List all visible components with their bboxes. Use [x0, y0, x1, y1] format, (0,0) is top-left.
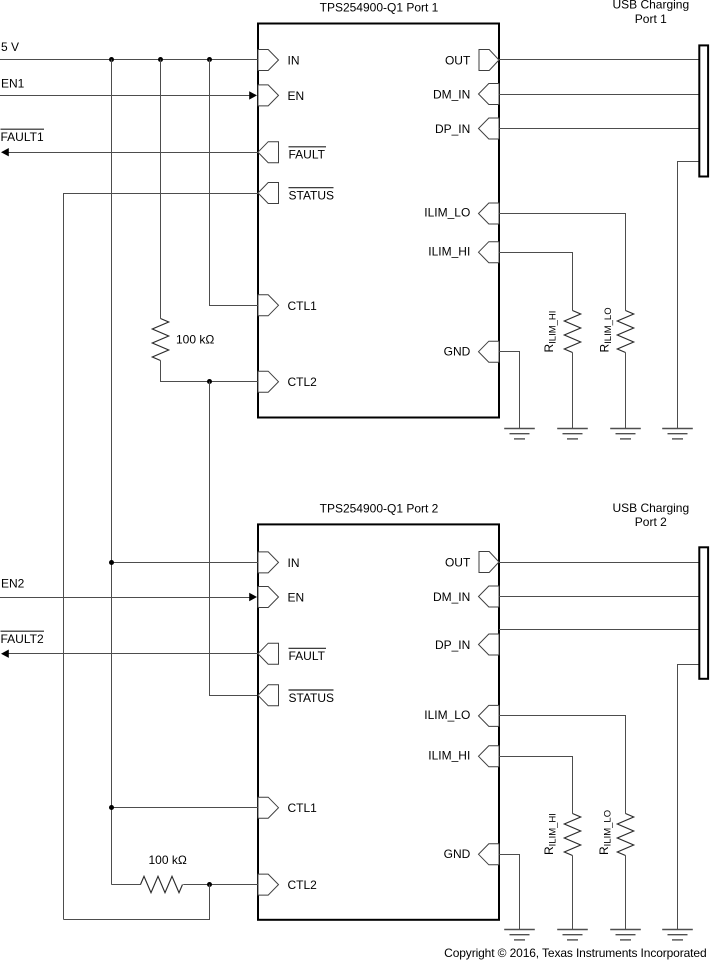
svg-text:IN: IN	[288, 556, 300, 570]
svg-text:OUT: OUT	[445, 54, 471, 68]
svg-text:ILIM_LO: ILIM_LO	[424, 206, 470, 220]
wire EN2 to EN (U2)	[0, 597, 250, 599]
label R_ILIM_HI (U2)	[542, 813, 559, 855]
pin CTL1 (U1)	[258, 295, 279, 316]
svg-text:CTL1: CTL1	[288, 299, 318, 313]
svg-text:GND: GND	[444, 345, 471, 359]
svg-text:USB Charging: USB Charging	[612, 501, 689, 515]
ground R_ILIM_HI (U2)	[557, 930, 588, 940]
wire DM_IN (U1) to USB1	[499, 94, 699, 96]
svg-text:FAULT1: FAULT1	[1, 130, 44, 144]
wire GND (U2) to ground	[500, 855, 520, 930]
wire EN1 to EN (U1)	[0, 95, 250, 97]
svg-text:DM_IN: DM_IN	[433, 590, 470, 604]
label R_ILIM_HI (U1)	[542, 311, 559, 353]
ground R_ILIM_LO (U2)	[610, 930, 641, 940]
svg-text:5 V: 5 V	[1, 40, 19, 54]
svg-text:DP_IN: DP_IN	[435, 638, 470, 652]
pin OUT (U1)	[479, 50, 499, 71]
wire CTL2-1 branch to STATUS (U2)	[210, 382, 259, 696]
arrowhead FAULT1	[1, 148, 9, 156]
svg-text:EN2: EN2	[1, 577, 25, 591]
pin FAULT (U1)	[258, 142, 279, 163]
wire R_ILIM_HI (U2) to ground	[572, 856, 574, 930]
wire R2 to CTL2 (U2)	[183, 884, 258, 886]
resistor R_ILIM_LO (U2)	[617, 814, 633, 856]
svg-text:EN1: EN1	[1, 76, 25, 90]
overline FAULT pin (U2)	[289, 647, 327, 649]
wire 5V branch C to CTL1 (U1)	[210, 60, 259, 306]
pin CTL2 (U2)	[258, 874, 279, 895]
ground R_ILIM_LO (U1)	[610, 429, 641, 439]
wire ILIM_LO (U2) to R_ILIM_LO	[500, 716, 626, 814]
pin DM_IN (U1)	[479, 84, 500, 105]
resistor R2 100 kOhm	[141, 876, 183, 892]
svg-text:IN: IN	[288, 54, 300, 68]
wire 5V branch B to R1 top	[160, 60, 162, 319]
resistor R_ILIM_HI (U2)	[564, 814, 580, 856]
pin GND (U1)	[479, 341, 500, 362]
pin FAULT (U2)	[258, 643, 279, 664]
label R_ILIM_LO (U1)	[598, 307, 615, 352]
pin EN (U1)	[258, 85, 279, 106]
pin GND (U2)	[479, 844, 500, 865]
resistor R_ILIM_LO (U1)	[617, 311, 633, 353]
wire DP_IN (U1) to USB1	[499, 128, 699, 130]
ground R_ILIM_HI (U1)	[557, 429, 588, 439]
svg-text:CTL1: CTL1	[288, 801, 318, 815]
wire branch A to R2	[111, 884, 140, 886]
wire 5V rail to IN (U1)	[0, 59, 258, 61]
USB connector J1	[699, 45, 708, 176]
wire FAULT (U1) to FAULT1	[8, 152, 258, 154]
svg-text:GND: GND	[444, 847, 471, 861]
wire USB2 shield to ground	[678, 665, 700, 930]
resistor R_ILIM_HI (U1)	[564, 311, 580, 353]
svg-text:TPS254900-Q1 Port 2: TPS254900-Q1 Port 2	[320, 501, 439, 515]
svg-text:OUT: OUT	[445, 556, 471, 570]
wire DM_IN (U2) to USB2	[499, 596, 699, 598]
svg-text:100 kΩ: 100 kΩ	[176, 333, 214, 347]
USB connector J2	[699, 547, 708, 679]
svg-text:Port 1: Port 1	[635, 12, 667, 26]
svg-text:STATUS: STATUS	[289, 189, 335, 203]
wire USB1 shield to ground	[678, 162, 700, 429]
wire STATUS (U1) down-link	[64, 194, 259, 920]
IC U2 block TPS254900-Q1 Port 2	[258, 524, 499, 919]
overline STATUS pin (U1)	[289, 187, 334, 189]
junction 5V/branch-A	[109, 57, 114, 62]
pin ILIM_LO (U1)	[479, 203, 500, 224]
junction CTL2-1/STATUS2 branch	[207, 379, 212, 384]
svg-text:STATUS: STATUS	[289, 691, 335, 705]
wire 5V branch A down-rail	[111, 60, 113, 885]
wire CTL2-2 loop to STATUS (U1) link	[64, 885, 210, 920]
junction CTL2-2/loop	[207, 882, 212, 887]
pin OUT (U2)	[479, 552, 499, 573]
ground USB2 shield	[662, 930, 693, 940]
svg-text:RILIM_LO: RILIM_LO	[598, 307, 615, 352]
pin CTL2 (U1)	[258, 371, 279, 392]
overline FAULT1	[1, 128, 45, 130]
svg-text:ILIM_HI: ILIM_HI	[428, 245, 470, 259]
pin ILIM_HI (U2)	[479, 746, 500, 767]
svg-text:EN: EN	[288, 591, 305, 605]
ground GND (U2)	[504, 930, 535, 940]
IC U1 block TPS254900-Q1 Port 1	[258, 24, 499, 418]
ground GND (U1)	[504, 429, 535, 439]
wire R1 bottom to CTL2 (U1)	[161, 361, 259, 382]
overline FAULT2	[1, 630, 45, 632]
pin DP_IN (U2)	[479, 634, 500, 655]
svg-text:EN: EN	[288, 89, 305, 103]
pin ILIM_HI (U1)	[479, 242, 500, 263]
svg-text:Port 2: Port 2	[635, 515, 667, 529]
pin EN (U2)	[258, 587, 279, 608]
svg-text:DM_IN: DM_IN	[433, 88, 470, 102]
arrowhead EN2	[249, 593, 257, 601]
svg-text:RILIM_HI: RILIM_HI	[542, 813, 559, 855]
pin IN (U2)	[258, 552, 279, 573]
wire OUT (U1) to USB1	[499, 59, 699, 61]
resistor R1 100 kOhm	[152, 319, 168, 361]
pin IN (U1)	[258, 50, 279, 71]
wire R_ILIM_LO (U2) to ground	[625, 856, 627, 930]
ground USB1 shield	[662, 429, 693, 439]
junction 5V-A/IN2	[109, 560, 114, 565]
junction 5V-A/CTL1-2	[109, 805, 114, 810]
svg-text:DP_IN: DP_IN	[435, 122, 470, 136]
svg-text:CTL2: CTL2	[288, 878, 318, 892]
arrowhead FAULT2	[1, 650, 9, 658]
wire GND (U1) to ground	[500, 352, 520, 429]
overline FAULT pin (U1)	[289, 146, 327, 148]
svg-text:TPS254900-Q1 Port 1: TPS254900-Q1 Port 1	[320, 1, 439, 15]
junction 5V/branch-C	[207, 57, 212, 62]
svg-text:RILIM_HI: RILIM_HI	[542, 311, 559, 353]
pin DM_IN (U2)	[479, 586, 500, 607]
arrowhead EN1	[249, 91, 257, 99]
svg-text:Copyright © 2016, Texas Instru: Copyright © 2016, Texas Instruments Inco…	[444, 946, 706, 960]
svg-text:ILIM_HI: ILIM_HI	[428, 749, 470, 763]
wire ILIM_HI (U2) to R_ILIM_HI	[500, 757, 573, 814]
svg-text:FAULT: FAULT	[289, 649, 326, 663]
wire R_ILIM_HI (U1) to ground	[572, 353, 574, 429]
pin ILIM_LO (U2)	[479, 705, 500, 726]
svg-text:USB Charging: USB Charging	[612, 0, 689, 11]
wire 5V branch A to CTL1 (U2)	[111, 807, 258, 809]
wire ILIM_HI (U1) to R_ILIM_HI	[500, 253, 573, 311]
pin STATUS (U1)	[258, 183, 279, 204]
label R_ILIM_LO (U2)	[597, 810, 614, 855]
svg-text:RILIM_LO: RILIM_LO	[597, 810, 614, 855]
svg-text:100 kΩ: 100 kΩ	[149, 853, 187, 867]
pin STATUS (U2)	[258, 685, 279, 706]
pin DP_IN (U1)	[479, 118, 500, 139]
junction 5V/branch-B	[158, 57, 163, 62]
wire DP_IN (U2) to USB2	[499, 629, 699, 631]
svg-text:ILIM_LO: ILIM_LO	[424, 708, 470, 722]
wire FAULT (U2) to FAULT2	[8, 653, 258, 655]
wire ILIM_LO (U1) to R_ILIM_LO	[500, 214, 626, 311]
wire OUT (U2) to USB2	[499, 562, 699, 564]
svg-text:FAULT: FAULT	[289, 148, 326, 162]
wire R_ILIM_LO (U1) to ground	[625, 353, 627, 429]
wire 5V branch A to IN (U2)	[111, 562, 258, 564]
svg-text:CTL2: CTL2	[288, 375, 318, 389]
svg-text:FAULT2: FAULT2	[1, 632, 44, 646]
overline STATUS pin (U2)	[289, 689, 334, 691]
pin CTL1 (U2)	[258, 797, 279, 818]
